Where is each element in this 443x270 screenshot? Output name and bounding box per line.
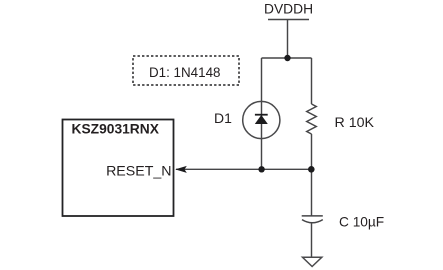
svg-text:R 10K: R 10K bbox=[335, 115, 375, 131]
svg-text:DVDDH: DVDDH bbox=[264, 2, 313, 17]
svg-text:D1: 1N4148: D1: 1N4148 bbox=[149, 65, 220, 80]
svg-text:D1: D1 bbox=[214, 110, 232, 126]
svg-text:KSZ9031RNX: KSZ9031RNX bbox=[72, 122, 160, 137]
svg-text:C 10µF: C 10µF bbox=[339, 214, 384, 229]
svg-text:RESET_N: RESET_N bbox=[106, 163, 171, 179]
